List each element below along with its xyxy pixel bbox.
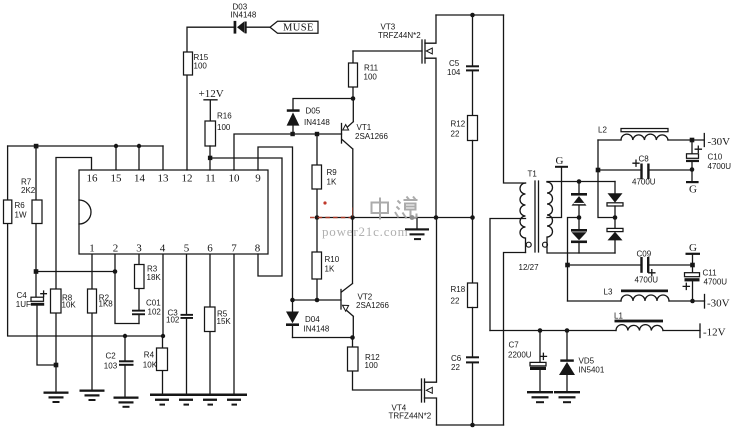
ground C2 — [114, 397, 139, 408]
ground C7 — [527, 391, 553, 403]
svg-text:1K: 1K — [325, 265, 335, 274]
node dot VD5/rail — [565, 328, 570, 333]
resistor R12 (driver) — [348, 338, 422, 391]
svg-text:103: 103 — [104, 362, 118, 371]
ground VD5 — [554, 391, 580, 403]
svg-text:22: 22 — [451, 363, 460, 372]
wire pin11 node to pin8 — [210, 158, 282, 276]
junction square L2/-30V — [690, 138, 695, 143]
supply +12V — [199, 88, 224, 121]
svg-text:4700U: 4700U — [632, 178, 656, 187]
svg-text:+12V: +12V — [199, 88, 224, 100]
transistor VT2 — [341, 218, 389, 338]
svg-text:IN4148: IN4148 — [304, 118, 330, 127]
wire pin10 to VT1 base — [234, 134, 342, 170]
svg-text:2200U: 2200U — [508, 351, 532, 360]
svg-text:13: 13 — [158, 173, 170, 185]
transistor VT1 — [342, 99, 389, 218]
resistor R12 (snubber top) — [451, 116, 478, 218]
wire pin12 R15 column — [187, 27, 234, 170]
inductor L1 — [614, 311, 663, 330]
svg-text:22: 22 — [451, 130, 460, 139]
junction square C4-R8 — [54, 363, 59, 368]
svg-text:1: 1 — [89, 243, 95, 255]
svg-text:C6: C6 — [451, 354, 462, 363]
node dot VT2e/R12 — [350, 335, 355, 340]
svg-text:L3: L3 — [604, 288, 613, 297]
resistor R18 (snubber bottom) — [451, 218, 478, 308]
svg-text:4: 4 — [160, 243, 166, 255]
svg-text:R6: R6 — [15, 201, 26, 210]
svg-text:G: G — [689, 184, 697, 196]
wire pin16 to R8 column — [56, 158, 92, 394]
resistor R2 — [88, 289, 114, 313]
node dot right mid — [613, 215, 618, 220]
resistor R4 — [143, 348, 168, 371]
diode D04 — [286, 300, 330, 338]
svg-text:R9: R9 — [327, 168, 338, 177]
mosfet VT3 — [378, 15, 436, 218]
wire C09 net — [568, 264, 693, 266]
wire right mid to L2 column — [598, 140, 615, 218]
junction square R16/pin8wire — [208, 156, 212, 160]
node dot left mid — [577, 215, 582, 220]
wire R16 to pin11 — [209, 146, 211, 170]
svg-text:2K2: 2K2 — [21, 186, 36, 195]
svg-text:IN5401: IN5401 — [579, 366, 605, 375]
svg-text:D04: D04 — [305, 315, 320, 324]
node dot C8/C10 — [690, 167, 695, 172]
wire R6 column and bottom rail — [8, 223, 163, 337]
svg-text:1W: 1W — [15, 211, 27, 220]
svg-text:D05: D05 — [306, 107, 321, 116]
bottom rail — [437, 424, 504, 426]
svg-text:-30V: -30V — [707, 298, 730, 310]
resistor R3 — [135, 265, 162, 289]
diode D03 — [231, 3, 257, 34]
svg-text:1K8: 1K8 — [99, 300, 114, 309]
junction square R9/base wire — [315, 132, 319, 136]
resistor R16 — [205, 112, 232, 147]
svg-text:10K: 10K — [143, 361, 158, 370]
svg-text:R4: R4 — [144, 351, 155, 360]
wire pin4 R4 column — [162, 254, 165, 394]
node dot rail336/R4 — [161, 334, 165, 338]
wire pin7 column — [233, 254, 235, 394]
svg-text:2: 2 — [113, 243, 119, 255]
wire top bus net — [8, 146, 163, 200]
wire -12V rail — [490, 330, 700, 332]
svg-text:T1: T1 — [528, 170, 538, 179]
svg-text:C10: C10 — [708, 153, 723, 162]
wire secondary bottom rail — [548, 252, 615, 254]
svg-text:12: 12 — [182, 173, 193, 185]
svg-text:C8: C8 — [639, 155, 650, 164]
junction square L2/C8 node — [596, 168, 601, 173]
svg-text:15K: 15K — [217, 317, 232, 326]
diode D-left-bottom — [571, 218, 587, 254]
svg-text:C7: C7 — [509, 341, 520, 350]
junction square R7-C4 node to pin2 rail — [34, 269, 39, 274]
resistor R6 — [4, 200, 27, 224]
svg-text:C09: C09 — [637, 250, 652, 259]
node dot R10/base wire — [315, 298, 320, 303]
mid ground rail — [317, 217, 473, 219]
svg-text:L2: L2 — [598, 126, 607, 135]
wire R7 column — [36, 146, 56, 365]
terminal -30V top — [692, 134, 730, 149]
resistor R11 — [349, 51, 379, 99]
wire VT2 base rail — [293, 299, 342, 301]
wire D04-R12 bottom node — [293, 337, 353, 339]
svg-text:100: 100 — [194, 62, 208, 71]
inductor L2 — [598, 126, 692, 141]
resistor R15 — [184, 52, 209, 75]
resistor R9 — [312, 134, 337, 218]
svg-text:R10: R10 — [325, 255, 340, 264]
node dot C11/-30V rail — [690, 299, 695, 304]
capacitor C01 — [132, 299, 161, 317]
resistor R5 — [205, 307, 232, 332]
svg-text:R18: R18 — [451, 285, 466, 294]
svg-text:6: 6 — [207, 243, 213, 255]
svg-text:4700U: 4700U — [704, 278, 728, 287]
svg-text:4700U: 4700U — [635, 276, 659, 285]
wire pin2 column to C01 bottom — [115, 254, 139, 324]
svg-text:8: 8 — [255, 243, 261, 255]
node dot bottomrail/C6 — [470, 423, 475, 428]
wire left mid to C09 node — [568, 218, 580, 302]
svg-text:2SA1266: 2SA1266 — [356, 301, 389, 310]
node dot rail336/C2 — [123, 334, 127, 338]
svg-text:100: 100 — [364, 73, 378, 82]
svg-text:TRFZ44N*2: TRFZ44N*2 — [389, 411, 432, 420]
svg-text:2SA1266: 2SA1266 — [355, 132, 388, 141]
svg-text:100: 100 — [365, 361, 379, 370]
svg-text:power21c.com: power21c.com — [322, 224, 409, 239]
resistor R7 — [21, 178, 42, 224]
wire secondary top rail — [547, 181, 615, 183]
capacitor C09 — [635, 250, 659, 285]
diode D-right-bottom — [607, 218, 623, 254]
svg-text:MUSE: MUSE — [283, 22, 314, 33]
svg-text:102: 102 — [148, 308, 162, 317]
junction square C09/C11 — [690, 263, 695, 268]
wire D03 to MUSE — [247, 26, 270, 28]
svg-text:G: G — [556, 155, 564, 167]
watermark chinese characters — [372, 197, 418, 220]
node dot bus/pin15 — [114, 144, 118, 148]
wire C8 net — [598, 169, 692, 171]
svg-text:C4: C4 — [17, 291, 28, 300]
svg-text:16: 16 — [87, 173, 99, 185]
node dot sectop/Dlt — [577, 179, 582, 184]
watermark gray dot — [410, 215, 415, 220]
svg-text:4700U: 4700U — [708, 162, 732, 171]
svg-text:R12: R12 — [451, 120, 466, 129]
node dot rail/pin2 — [113, 269, 118, 274]
merged ground pins 4-7 — [150, 394, 247, 406]
svg-text:-30V: -30V — [708, 136, 731, 148]
svg-text:22: 22 — [451, 297, 460, 306]
wire pin6 R5 column — [209, 254, 211, 394]
svg-text:IN4148: IN4148 — [304, 325, 330, 334]
ground R2 — [80, 390, 105, 402]
svg-text:1UF: 1UF — [16, 300, 31, 309]
IC U1 — [79, 170, 268, 255]
junction square C09 node — [565, 263, 570, 268]
wire pin3 R3 C01 column — [138, 254, 140, 324]
svg-text:3: 3 — [136, 243, 142, 255]
capacitor C8 — [632, 155, 656, 187]
terminal -12V — [700, 324, 726, 339]
resistor R10 — [312, 218, 340, 301]
svg-text:11: 11 — [205, 173, 216, 185]
svg-text:5: 5 — [184, 243, 190, 255]
node dot C7/rail — [538, 328, 543, 333]
svg-text:R11: R11 — [364, 64, 379, 73]
svg-text:R16: R16 — [217, 112, 232, 121]
terminal -30V bottom — [705, 295, 730, 310]
svg-text:C11: C11 — [703, 269, 718, 278]
node dot rail/VT3VT4 — [434, 215, 439, 220]
watermark red tick — [352, 208, 354, 217]
capacitor C2 — [104, 336, 134, 397]
transformer T1 — [519, 170, 553, 273]
capacitor C7 — [508, 331, 547, 392]
top rail — [436, 14, 504, 16]
node dot D04/base wire — [290, 298, 295, 303]
junction square bus/R7 — [34, 144, 39, 149]
capacitor C11 — [683, 265, 727, 301]
svg-text:C2: C2 — [106, 352, 117, 361]
inductor L3 — [604, 288, 670, 302]
svg-text:100: 100 — [217, 123, 231, 132]
node dot rail/C5 chain — [470, 215, 475, 220]
node dot bus/pin14 — [137, 144, 141, 148]
capacitor C3 — [166, 309, 193, 325]
svg-text:C5: C5 — [449, 59, 460, 68]
svg-text:15: 15 — [111, 173, 123, 185]
resistor R8 — [51, 289, 77, 313]
wire primary center tap to -12V drop — [490, 219, 526, 331]
svg-text:10: 10 — [229, 173, 241, 185]
svg-text:VT1: VT1 — [357, 123, 372, 132]
svg-text:IN4148: IN4148 — [231, 10, 257, 19]
mosfet VT4 — [389, 218, 437, 426]
node dot rail/R9R10 — [315, 215, 320, 220]
ground G secondary center tap — [547, 155, 568, 218]
capacitor C10 — [686, 140, 731, 171]
wire rail R7node-pin2 — [36, 271, 115, 273]
node dot R11/D05/VT1e — [351, 96, 356, 101]
svg-text:14: 14 — [134, 173, 146, 185]
svg-text:TRFZ44N*2: TRFZ44N*2 — [378, 31, 421, 40]
ground G C11 — [686, 242, 701, 265]
ground G C10 — [686, 170, 699, 196]
watermark red dot — [323, 201, 326, 204]
svg-text:1K: 1K — [327, 178, 337, 187]
node dot toprail/C5 — [470, 13, 475, 18]
wire pin9 to VT2 base node — [258, 147, 293, 300]
svg-text:G: G — [689, 242, 697, 254]
svg-text:7: 7 — [231, 243, 237, 255]
svg-text:L1: L1 — [614, 311, 623, 320]
svg-text:-12V: -12V — [703, 327, 726, 339]
wire pin1 R2 column — [91, 254, 93, 389]
svg-text:104: 104 — [447, 68, 461, 77]
svg-text:18K: 18K — [147, 273, 162, 282]
svg-text:9: 9 — [255, 173, 261, 185]
svg-text:C01: C01 — [146, 299, 161, 308]
svg-text:VD5: VD5 — [579, 357, 595, 366]
flag MUSE — [270, 21, 318, 33]
watermark red dashes — [310, 217, 351, 219]
diode D-left-top — [571, 182, 587, 218]
svg-text:102: 102 — [166, 316, 180, 325]
node dot rail/VT1VT2 — [350, 215, 355, 220]
diode VD5 — [559, 331, 605, 392]
diode D05 — [287, 99, 353, 132]
wire R11 to VT3 gate — [353, 50, 422, 52]
junction square D05/base wire — [290, 132, 294, 136]
capacitor C5 — [447, 15, 479, 116]
wire primary bottom feed — [504, 253, 526, 426]
capacitor C6 — [451, 308, 479, 426]
wire pin5 C3 column — [186, 254, 188, 394]
wire primary top feed — [504, 15, 526, 183]
svg-text:10K: 10K — [62, 301, 77, 310]
capacitor C4 — [16, 291, 47, 309]
ground mid rail — [405, 218, 429, 241]
svg-text:12/27: 12/27 — [519, 263, 540, 272]
ground R8 — [44, 392, 69, 404]
wire -30V bottom rail — [568, 300, 705, 302]
diode D-right-top — [607, 182, 623, 218]
